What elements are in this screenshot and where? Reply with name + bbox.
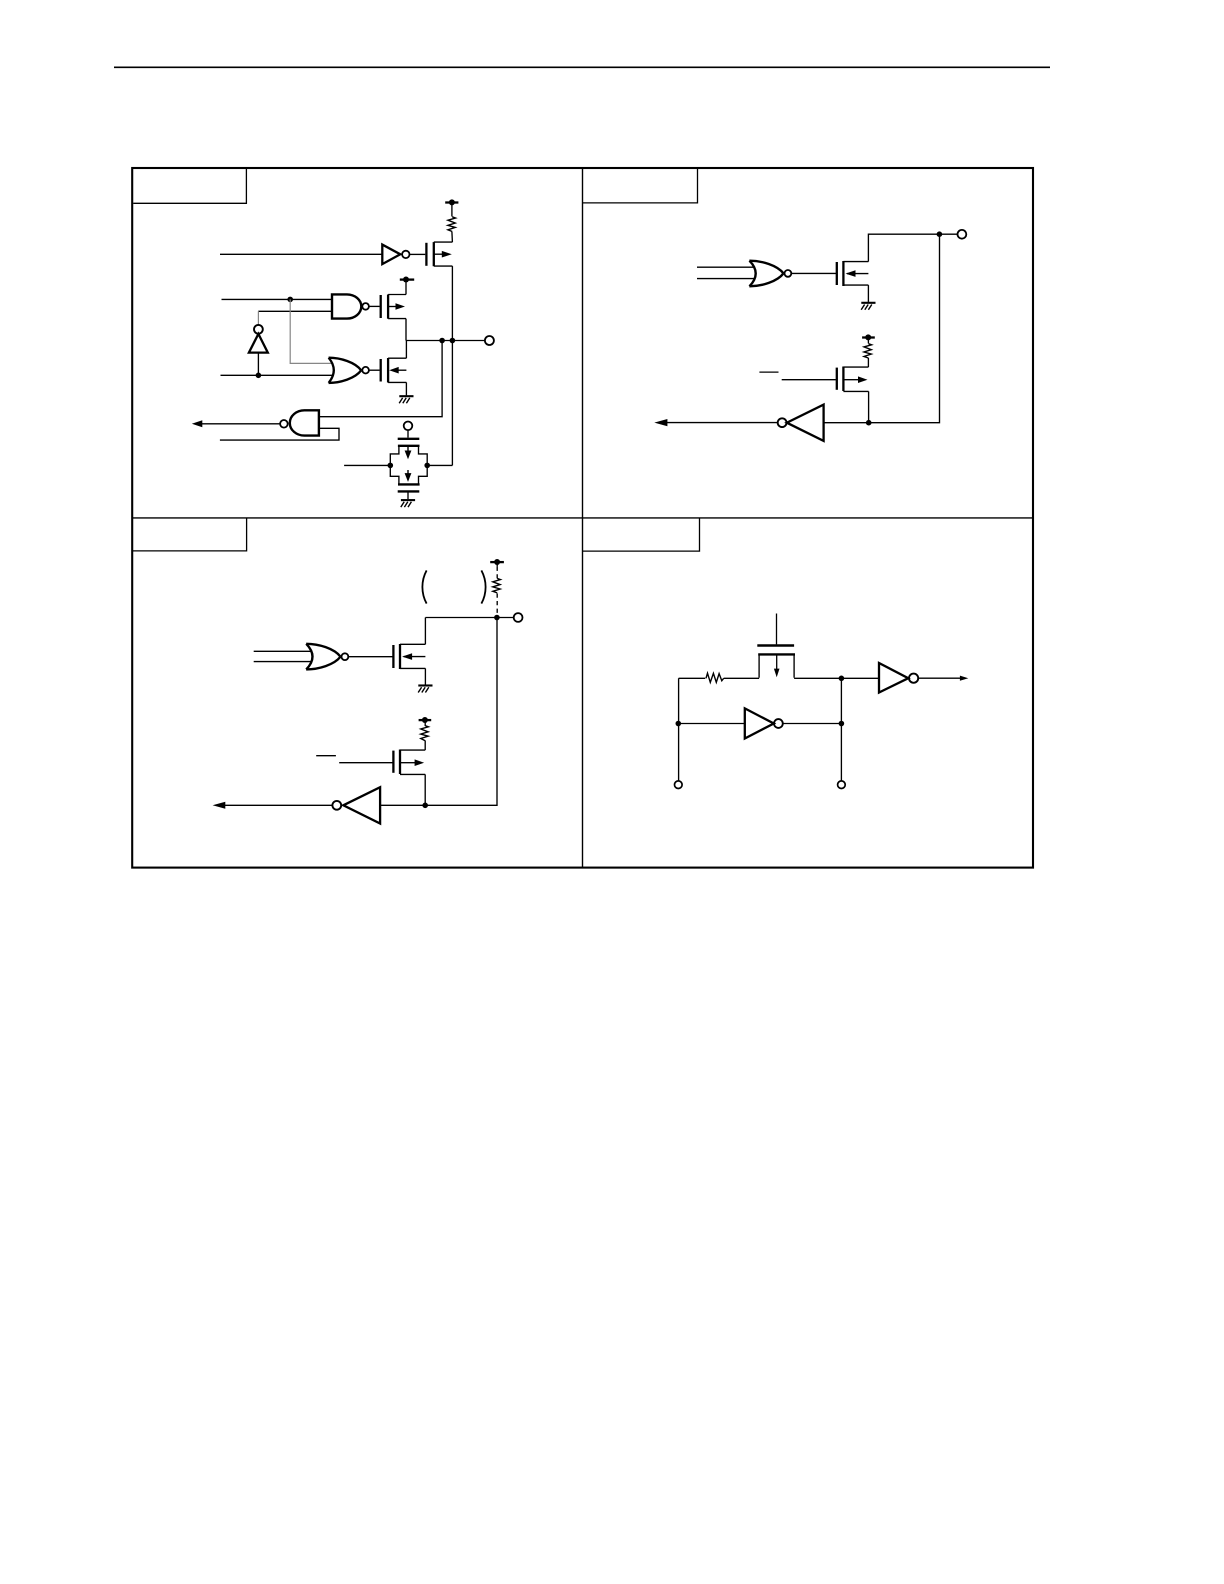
wire xyxy=(679,677,706,679)
inverter U7 xyxy=(654,405,823,441)
node L xyxy=(676,721,682,727)
wire xyxy=(451,232,454,242)
wire xyxy=(405,382,407,395)
node H xyxy=(866,420,872,426)
ground xyxy=(418,686,432,693)
wire xyxy=(697,278,755,280)
node C xyxy=(439,338,445,344)
wire xyxy=(344,464,390,466)
transistor N1 xyxy=(381,358,407,383)
terminal X2 xyxy=(838,781,846,789)
wire (gray) xyxy=(257,311,259,325)
wire xyxy=(380,618,497,806)
node G xyxy=(937,231,943,237)
wire xyxy=(424,668,426,684)
wire (output) xyxy=(406,340,485,342)
ground xyxy=(399,396,413,403)
transistor N2 xyxy=(837,261,869,286)
wire xyxy=(427,464,452,466)
pad (pin circle) xyxy=(958,230,967,239)
wire xyxy=(867,285,869,302)
wire xyxy=(425,617,513,619)
power VDD5 xyxy=(419,717,432,726)
wire (enable input of U5) xyxy=(220,428,339,440)
node D xyxy=(450,338,456,344)
wire xyxy=(258,310,332,312)
wire xyxy=(451,266,453,340)
wire xyxy=(678,723,745,725)
power VDD2 xyxy=(400,277,414,295)
resistor R3 (mask option, dashed leads) xyxy=(493,578,501,593)
node B xyxy=(256,373,262,379)
wire xyxy=(867,358,869,367)
inverter U9 xyxy=(213,787,381,823)
resistor R2 xyxy=(864,344,872,358)
wire xyxy=(221,374,334,376)
wire xyxy=(405,319,407,341)
pad (pin circle) xyxy=(485,336,494,345)
pad (pin circle) xyxy=(514,613,523,622)
wire xyxy=(840,678,842,781)
transistor N3 xyxy=(837,367,869,392)
analog switch Q1 xyxy=(390,422,427,500)
wire xyxy=(868,391,870,422)
power VDD3 xyxy=(862,334,875,343)
resistor R1 xyxy=(448,217,456,232)
transistor N5 xyxy=(393,750,425,775)
NOR U4 xyxy=(329,358,380,383)
wire xyxy=(339,762,392,764)
power VDD4 xyxy=(490,559,504,578)
wire (dashed) xyxy=(496,593,498,617)
signal overline mark xyxy=(316,755,336,757)
node K xyxy=(839,676,845,682)
wire (gray feedback) xyxy=(290,299,333,363)
signal overline mark xyxy=(759,371,778,373)
resistor R4 xyxy=(421,726,429,741)
wire xyxy=(824,234,940,423)
power VDD1 xyxy=(445,199,458,216)
node I xyxy=(494,615,500,621)
node A xyxy=(287,297,293,303)
ground xyxy=(861,303,875,310)
wire xyxy=(794,677,879,679)
buffer U1 xyxy=(382,245,425,265)
transistor P3 (oscillator feedback FET) xyxy=(757,614,795,678)
ground xyxy=(401,500,415,507)
transistor P1 (pull-up P-ch) xyxy=(426,242,452,266)
inverter U3 xyxy=(249,325,268,375)
wire xyxy=(678,678,680,781)
parenthesis left xyxy=(422,570,426,603)
wire xyxy=(319,341,442,417)
NOR U6 xyxy=(749,261,836,287)
buffer U10 xyxy=(879,663,968,693)
wire xyxy=(451,341,453,466)
node F xyxy=(424,463,430,469)
node E xyxy=(388,463,394,469)
wire xyxy=(254,661,312,663)
NAND U2 xyxy=(332,294,380,318)
wire xyxy=(724,677,759,679)
wire xyxy=(424,774,426,805)
NOR U8 xyxy=(306,644,392,670)
wire xyxy=(254,650,312,652)
wire xyxy=(222,298,333,300)
wire xyxy=(424,618,426,645)
inverter U11 xyxy=(745,708,842,738)
wire xyxy=(782,379,836,381)
wire xyxy=(697,266,755,268)
node M xyxy=(839,721,845,727)
transistor N4 xyxy=(393,644,425,669)
parenthesis right xyxy=(481,570,485,603)
node J xyxy=(422,803,428,809)
wire xyxy=(405,341,407,359)
wire xyxy=(220,253,382,255)
wire xyxy=(424,741,426,751)
terminal X1 xyxy=(675,781,683,789)
transistor P2 xyxy=(381,295,406,319)
resistor R5 xyxy=(706,673,724,682)
AND U5 (input buffer) xyxy=(192,410,319,435)
wire xyxy=(868,234,957,261)
